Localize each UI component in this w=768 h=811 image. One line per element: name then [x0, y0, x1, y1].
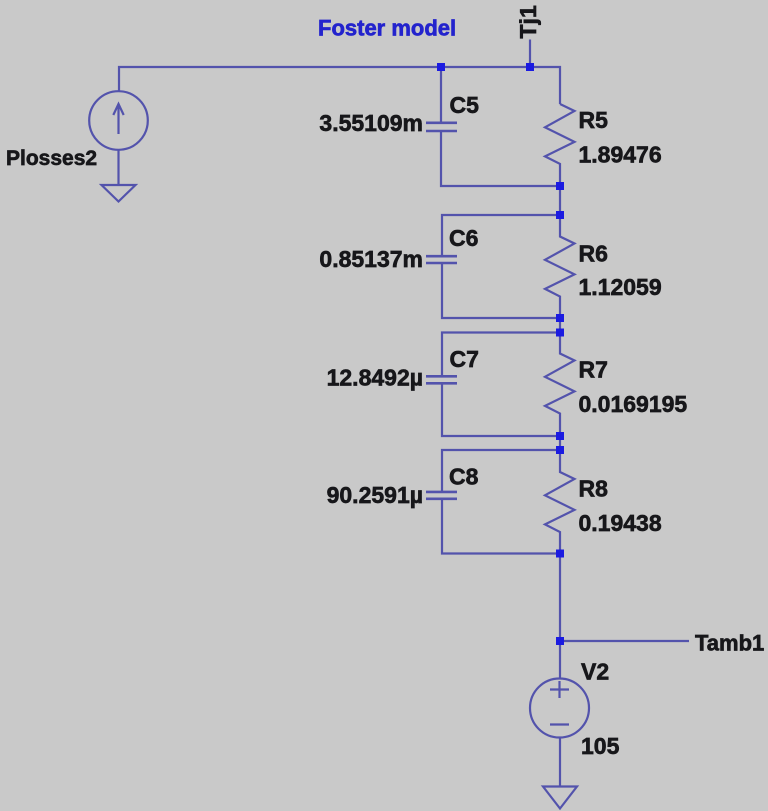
svg-text:0.85137m: 0.85137m	[319, 246, 423, 272]
svg-text:0.0169195: 0.0169195	[579, 391, 688, 417]
svg-text:C8: C8	[449, 464, 479, 490]
svg-text:Tamb1: Tamb1	[695, 631, 764, 656]
svg-text:R7: R7	[579, 357, 608, 383]
svg-text:V2: V2	[581, 659, 609, 685]
svg-text:Tj1: Tj1	[515, 5, 541, 38]
svg-text:C6: C6	[449, 225, 478, 251]
svg-text:R8: R8	[579, 476, 609, 502]
svg-text:C5: C5	[450, 92, 480, 118]
svg-text:C7: C7	[450, 346, 479, 372]
svg-text:105: 105	[581, 733, 620, 759]
svg-text:Plosses2: Plosses2	[6, 147, 97, 170]
svg-text:1.89476: 1.89476	[579, 141, 662, 167]
svg-text:R5: R5	[579, 107, 609, 133]
svg-text:3.55109m: 3.55109m	[319, 110, 423, 136]
svg-text:12.8492µ: 12.8492µ	[327, 365, 423, 391]
svg-text:Foster model: Foster model	[318, 16, 456, 41]
svg-text:90.2591µ: 90.2591µ	[327, 482, 423, 508]
svg-text:1.12059: 1.12059	[579, 274, 662, 300]
svg-text:0.19438: 0.19438	[579, 510, 662, 536]
svg-text:R6: R6	[579, 241, 608, 267]
